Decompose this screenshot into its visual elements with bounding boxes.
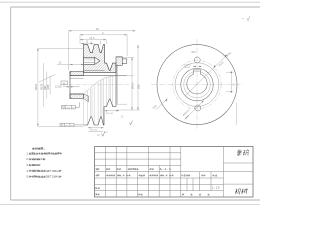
svg-text:GB/T 1184-L: GB/T 1184-L	[46, 176, 61, 179]
circular view tiny texts	[152, 51, 236, 120]
svg-text:Ø80: Ø80	[137, 84, 140, 89]
svg-text:1.: 1.	[26, 152, 28, 155]
svg-text:21.5: 21.5	[90, 37, 95, 40]
web curve external lower	[84, 76, 117, 94]
svg-text:10: 10	[59, 62, 62, 65]
dimension stack top	[69, 31, 136, 71]
keyway depth line	[70, 77, 84, 79]
svg-text:84: 84	[96, 28, 99, 31]
svg-text:3.: 3.	[26, 164, 28, 167]
hub top band section	[70, 72, 84, 76]
hub outline	[69, 72, 71, 99]
axis centerline	[62, 84, 130, 86]
chamfer leader	[39, 74, 55, 82]
rim section hatched: large + small step band	[84, 45, 117, 73]
hub chamfers	[70, 72, 72, 74]
svg-text:2×Ø10: 2×Ø10	[184, 63, 191, 66]
svg-text:GB/T 1804-c: GB/T 1804-c	[46, 170, 61, 173]
right diameter dims	[116, 45, 140, 110]
keyway width dim marks above	[193, 65, 201, 67]
bore with keyway	[187, 70, 207, 94]
left diameter dims	[38, 48, 84, 126]
sheet edge top	[0, 1, 260, 3]
centerlines	[151, 84, 244, 86]
svg-text:1.5: 1.5	[216, 186, 220, 190]
lower silhouette mirrored grooves	[84, 107, 105, 126]
top-right roughness note	[247, 16, 250, 20]
svg-text:Ø38: Ø38	[47, 84, 50, 89]
sheet edge bottom	[0, 204, 260, 206]
chamfer circle	[184, 71, 210, 97]
svg-text:≈: ≈	[242, 16, 244, 20]
web lower small hatch	[84, 94, 89, 102]
hub circle	[181, 68, 213, 100]
svg-text:12JS9: 12JS9	[55, 87, 62, 89]
bottom hole	[195, 105, 201, 111]
part name	[236, 150, 249, 156]
svg-text:38°±30': 38°±30'	[106, 113, 114, 115]
tiny dim texts left view	[35, 28, 140, 137]
svg-text:Ø128: Ø128	[218, 61, 225, 68]
drawing frame	[11, 7, 261, 200]
title block small texts	[95, 168, 220, 195]
small step right faces	[115, 65, 117, 106]
svg-text:Ø160: Ø160	[35, 83, 38, 90]
svg-text:Ø160: Ø160	[226, 51, 233, 58]
svg-text:5.: 5.	[26, 176, 28, 179]
svg-text:10: 10	[97, 134, 100, 137]
svg-text:4.: 4.	[26, 170, 28, 173]
keyway dim arrows inside bore	[63, 86, 80, 88]
svg-text:Ø100: Ø100	[131, 82, 134, 89]
GD&T frames	[60, 81, 83, 127]
outer circle	[157, 45, 237, 125]
svg-text:.: .	[164, 175, 165, 177]
leaders	[156, 54, 229, 120]
svg-text:Ø128: Ø128	[185, 67, 191, 69]
svg-text:12: 12	[86, 41, 89, 44]
svg-text:12: 12	[233, 83, 236, 86]
right boss	[116, 57, 127, 66]
set screw hole	[82, 57, 102, 64]
svg-text:1: 1	[212, 186, 214, 190]
right small dim	[226, 72, 236, 125]
large step lower verticals	[84, 79, 104, 125]
svg-text:2.: 2.	[26, 158, 28, 161]
svg-text:A: A	[102, 32, 104, 35]
small step circle	[175, 63, 219, 107]
svg-text:.: .	[121, 175, 122, 177]
svg-text:6.3: 6.3	[105, 132, 109, 134]
bolt circle	[173, 60, 221, 108]
hub bottom band section	[70, 94, 84, 99]
svg-text:.: .	[168, 175, 169, 177]
groove angle dims	[88, 111, 119, 132]
svg-text:10: 10	[121, 116, 124, 119]
small step lower verticals	[107, 77, 113, 107]
roughness symbols on left view	[102, 121, 133, 137]
rim inner double line	[84, 70, 105, 72]
top hole	[194, 57, 200, 63]
svg-text:.: .	[125, 175, 126, 177]
svg-text:Ø10: Ø10	[192, 52, 197, 54]
svg-text:38°±30': 38°±30'	[90, 130, 98, 132]
small step lower groove mirror	[104, 99, 116, 106]
svg-text:A: A	[63, 81, 65, 85]
bore lines	[70, 75, 127, 77]
org name	[235, 189, 248, 195]
